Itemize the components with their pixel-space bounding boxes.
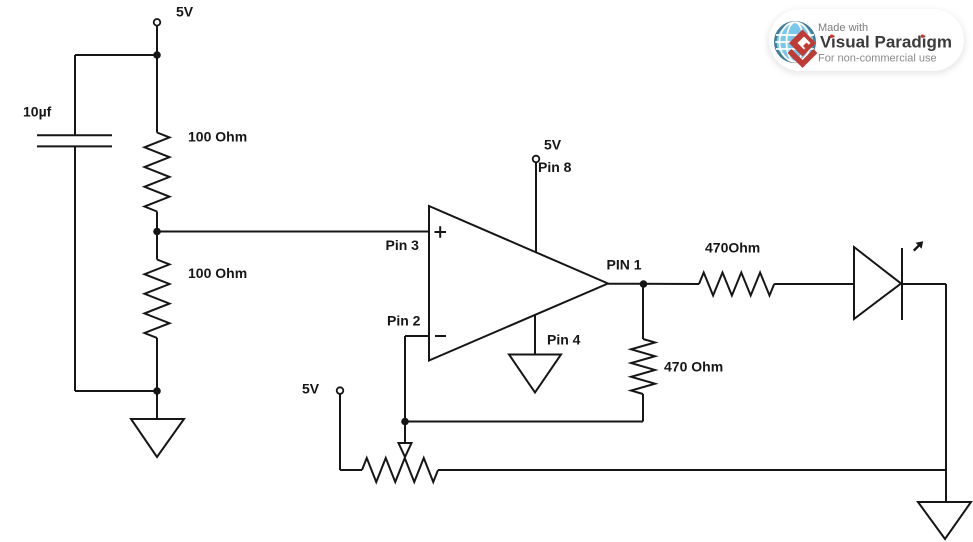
- junction node E (feedback/wiper): [401, 418, 409, 426]
- wire R2 bottom lead: [156, 338, 158, 391]
- wire junction C to ground: [156, 391, 158, 419]
- wire to junction below R2: [75, 390, 157, 392]
- junction node B (divider tap): [153, 228, 161, 236]
- terminal 5V pot: [337, 387, 344, 394]
- svg-text:100 Ohm: 100 Ohm: [188, 129, 247, 145]
- junction node C: [153, 387, 161, 395]
- terminal 5V top-left: [154, 19, 161, 26]
- wire minus input down to feedback node: [404, 336, 406, 422]
- wire wiper stem: [404, 422, 406, 444]
- wire right rail down: [945, 284, 947, 502]
- svg-text:PIN 1: PIN 1: [607, 257, 642, 273]
- svg-text:5V: 5V: [176, 4, 194, 20]
- badge shadow: [767, 10, 966, 74]
- wire capacitor bottom plate down: [74, 146, 76, 391]
- globe icon: [775, 22, 814, 61]
- wire pin 4 to ground: [534, 315, 536, 354]
- LED arrow: [914, 244, 920, 250]
- wire R1 bottom lead: [156, 212, 158, 232]
- wire op-amp minus input: [405, 335, 429, 337]
- svg-text:For non-commercial use: For non-commercial use: [818, 53, 937, 65]
- wire feedback run: [405, 421, 643, 423]
- svg-text:Pin 2: Pin 2: [387, 313, 421, 329]
- potentiometer R5 track: [362, 458, 438, 482]
- badge pill: [769, 9, 964, 71]
- Visual Paradigm logo badge: [767, 9, 966, 74]
- LED cathode bar: [901, 248, 903, 320]
- resistor R3 470Ohm: [699, 273, 774, 296]
- wire LED cathode to right rail: [902, 283, 946, 285]
- potentiometer wiper arrow: [399, 443, 412, 457]
- svg-text:Pin 4: Pin 4: [547, 332, 581, 348]
- svg-text:Pin 3: Pin 3: [386, 237, 420, 253]
- resistor R2 100 Ohm: [145, 260, 170, 338]
- wire down to capacitor top plate: [74, 55, 76, 135]
- wire 5V terminal down to pot: [339, 394, 341, 470]
- VP diamond logo: [789, 30, 816, 57]
- resistor R4 470 Ohm: [631, 339, 655, 394]
- op-amp U1 body: [429, 206, 608, 361]
- svg-text:100 Ohm: 100 Ohm: [188, 265, 247, 281]
- op-amp plus sign: [435, 231, 447, 233]
- capacitor C1 plates: [37, 134, 112, 136]
- ground symbol right: [918, 502, 971, 539]
- wire pot right lead to right rail: [438, 469, 946, 471]
- terminal 5V pin 8: [533, 156, 540, 163]
- op-amp minus sign: [435, 335, 446, 337]
- wire pin 8 supply: [535, 163, 537, 253]
- wire output node down to R4: [642, 284, 644, 339]
- svg-text:5V: 5V: [544, 137, 562, 153]
- svg-text:5V: 5V: [302, 381, 320, 397]
- red i dots: [830, 35, 833, 38]
- svg-text:470 Ohm: 470 Ohm: [664, 359, 723, 375]
- svg-text:Visual Paradigm: Visual Paradigm: [820, 33, 952, 52]
- wire node B to op-amp plus input: [157, 231, 429, 233]
- svg-text:10µf: 10µf: [23, 104, 52, 120]
- wire R3 to LED: [774, 283, 854, 285]
- wire R4 bottom lead: [642, 394, 644, 422]
- junction node A: [153, 51, 161, 59]
- resistor R1 100 Ohm: [145, 133, 170, 212]
- wire op-amp output: [608, 283, 699, 285]
- ground symbol pin 4: [509, 355, 561, 393]
- svg-text:470Ohm: 470Ohm: [705, 240, 760, 256]
- LED D1 body: [854, 247, 901, 319]
- junction node D (output): [640, 280, 648, 288]
- wire from 5V terminal down to R1: [156, 26, 158, 133]
- wire node B down to R2: [156, 232, 158, 260]
- wire junction A to capacitor branch: [75, 54, 157, 56]
- wire pot left lead: [340, 469, 362, 471]
- svg-text:Pin 8: Pin 8: [538, 159, 572, 175]
- ground symbol left: [131, 419, 184, 457]
